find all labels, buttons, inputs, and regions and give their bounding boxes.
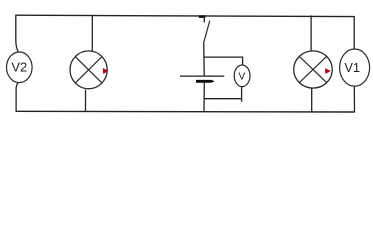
- switch S1 contact blob: [199, 15, 206, 18]
- wire right branch lower: [353, 86, 355, 112]
- wire left branch upper: [16, 15, 19, 53]
- wire voltmeter V bottom stub: [204, 98, 241, 100]
- wire left branch lower: [16, 82, 18, 112]
- voltmeter V2: [6, 52, 32, 83]
- wire battery branch upper: [203, 43, 206, 76]
- arrow red at lamp L1: [103, 68, 109, 74]
- svg-text:V1: V1: [344, 60, 360, 75]
- wire lamp L2 top stub: [310, 15, 312, 51]
- wire bottom bus: [16, 110, 355, 113]
- lamp L1: [70, 51, 107, 89]
- voltmeter V1: [340, 49, 370, 86]
- lamp L2: [294, 51, 333, 88]
- battery negative plate: [196, 80, 215, 83]
- switch S1 top stub: [203, 15, 205, 22]
- wire voltmeter V bottom lead: [241, 86, 243, 101]
- wire voltmeter V top stub: [204, 57, 243, 65]
- svg-text:V2: V2: [11, 60, 27, 75]
- svg-text:V: V: [238, 72, 245, 83]
- wire lamp L1 bottom stub: [85, 90, 87, 112]
- battery positive plate: [180, 75, 224, 77]
- switch S1 blade: [204, 21, 210, 43]
- wire top bus: [16, 15, 355, 16]
- wire right branch upper: [353, 16, 355, 49]
- wire battery branch lower: [203, 83, 205, 112]
- wire lamp L1 top stub: [91, 15, 93, 51]
- wire lamp L2 bottom stub: [311, 88, 313, 112]
- voltmeter V: [234, 65, 250, 87]
- arrow red at lamp L2: [325, 68, 331, 74]
